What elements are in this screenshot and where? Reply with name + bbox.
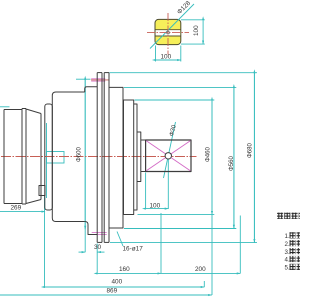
- svg-text:269: 269: [11, 205, 22, 212]
- svg-text:16-ø17: 16-ø17: [123, 246, 144, 253]
- svg-text:4.: 4.: [285, 257, 290, 264]
- svg-text:Φ600: Φ600: [77, 147, 83, 162]
- svg-text:100: 100: [193, 25, 200, 36]
- svg-text:30: 30: [94, 244, 102, 251]
- svg-text:160: 160: [119, 266, 130, 273]
- svg-text:Φ460: Φ460: [206, 147, 212, 162]
- svg-text:100: 100: [150, 203, 161, 210]
- svg-text:Φ560: Φ560: [229, 156, 235, 171]
- svg-text:3.: 3.: [285, 249, 290, 256]
- svg-text:5.: 5.: [285, 265, 290, 272]
- svg-text:2.: 2.: [285, 241, 290, 248]
- svg-text:200: 200: [195, 266, 206, 273]
- svg-text:400: 400: [112, 279, 123, 286]
- svg-text:1.: 1.: [285, 233, 290, 240]
- svg-text:Φ680: Φ680: [247, 143, 253, 158]
- svg-text:869: 869: [107, 288, 118, 295]
- svg-text:100: 100: [161, 53, 172, 60]
